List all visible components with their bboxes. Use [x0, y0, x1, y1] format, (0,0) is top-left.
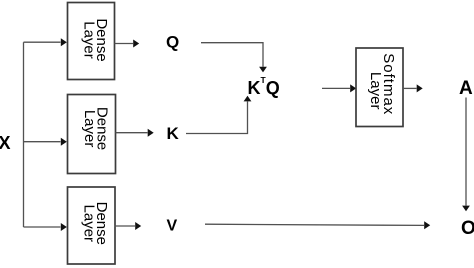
- dense layer box K: [68, 95, 116, 174]
- wire Dense(V) output arrow: [115, 225, 136, 227]
- wire branch to Dense Layer K: [24, 141, 61, 143]
- svg-text:X: X: [0, 133, 11, 153]
- svg-text:O: O: [461, 218, 474, 239]
- svg-text:Layer: Layer: [367, 72, 384, 110]
- wire V to O (long): [205, 224, 424, 225]
- svg-text:Layer: Layer: [80, 21, 97, 59]
- wire trunk from X branches: [23, 42, 25, 227]
- wire A to O (vertical): [465, 98, 467, 206]
- dense layer box V: [68, 187, 116, 264]
- wire K to KTQ (right then up): [186, 102, 248, 134]
- wire KTQ to Softmax: [322, 87, 350, 89]
- svg-text:Layer: Layer: [80, 205, 97, 243]
- svg-text:Layer: Layer: [81, 110, 98, 148]
- svg-text:A: A: [459, 78, 473, 99]
- svg-text:K: K: [167, 124, 180, 143]
- wire Dense(Q) output arrow: [115, 43, 134, 45]
- svg-text:Q: Q: [166, 33, 179, 52]
- softmax layer box: [356, 48, 403, 127]
- wire branch to Dense Layer V: [24, 226, 61, 228]
- dense layer box Q: [68, 3, 115, 80]
- wire branch to Dense Layer Q: [24, 41, 61, 43]
- wire Softmax to A: [403, 87, 417, 89]
- wire Q to KTQ (right then down): [201, 43, 263, 67]
- wire Dense(K) output arrow: [116, 132, 148, 134]
- svg-text:V: V: [167, 218, 178, 235]
